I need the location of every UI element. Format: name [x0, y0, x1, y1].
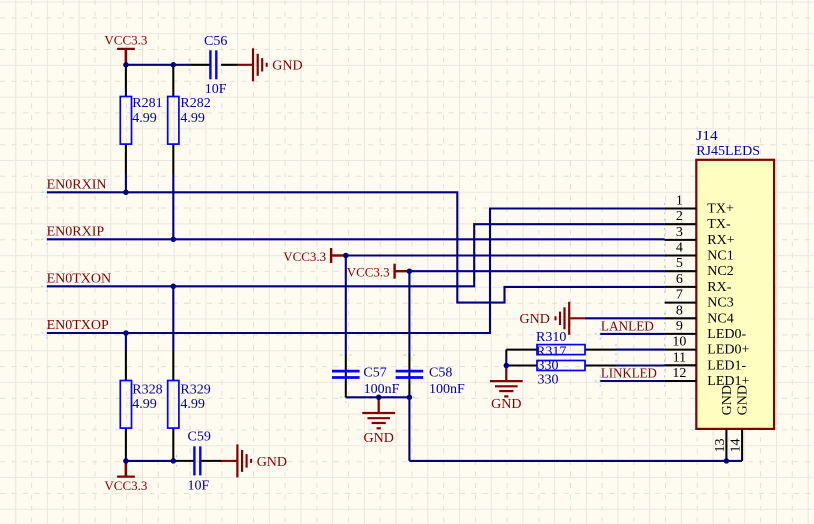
wire: top VCC3.3 rail — [126, 64, 189, 66]
wire: R310 output to pin 10 — [616, 349, 665, 351]
svg-text:R282: R282 — [180, 96, 210, 111]
svg-text:8: 8 — [676, 303, 683, 318]
svg-text:VCC3.3: VCC3.3 — [104, 32, 147, 47]
pin lead: C56 left — [189, 64, 210, 66]
wire: net EN0RXIP run to pin 3 — [47, 238, 665, 240]
svg-text:R281: R281 — [132, 96, 162, 111]
junction: bottom rail / R328 / VCC — [123, 458, 128, 464]
svg-text:GND: GND — [491, 397, 521, 412]
svg-text:R329: R329 — [180, 382, 210, 397]
pin 10 (LED0+) lead — [665, 349, 697, 351]
svg-text:330: 330 — [538, 358, 559, 373]
svg-text:100nF: 100nF — [364, 382, 400, 397]
wire: C57-C58 ground link — [346, 396, 410, 398]
svg-text:EN0RXIP: EN0RXIP — [47, 225, 105, 240]
resistor R282 — [168, 97, 179, 145]
resistor R281 — [120, 97, 131, 145]
pin lead: R282 top — [172, 65, 174, 97]
pin 8 (NC4) lead — [665, 317, 697, 319]
wire: R281 lower link — [125, 174, 127, 192]
wire: VCC3.3 port1 to pin 4 — [346, 254, 665, 256]
junction: VCC rail / R282 / C56 — [171, 62, 177, 68]
svg-text:12: 12 — [672, 366, 686, 381]
wire: bottom GND rail to pins 13-14 — [409, 460, 742, 462]
svg-text:4.99: 4.99 — [180, 111, 205, 126]
svg-text:330: 330 — [538, 373, 559, 388]
svg-text:VCC3.3: VCC3.3 — [283, 249, 326, 264]
pin lead: R310 left — [506, 349, 537, 351]
connection markers — [41, 59, 670, 467]
svg-text:1: 1 — [676, 194, 683, 209]
pin lead: C59 left — [177, 460, 195, 462]
junction: C58 / ground riser — [407, 395, 413, 401]
svg-text:VCC3.3: VCC3.3 — [347, 265, 390, 280]
ground GND (C57/C58) — [362, 397, 395, 446]
ground GND (top, C56) — [238, 48, 303, 81]
wire: R317 output to pin 11 — [616, 364, 665, 366]
svg-text:RX-: RX- — [707, 280, 731, 295]
svg-text:LED0-: LED0- — [707, 327, 746, 342]
svg-text:LINKLED: LINKLED — [601, 367, 657, 382]
svg-text:9: 9 — [676, 319, 683, 334]
resistor R328 — [120, 381, 131, 429]
pin lead: C59 right — [200, 460, 222, 462]
capacitor C57 — [332, 371, 360, 377]
svg-text:EN0RXIN: EN0RXIN — [47, 178, 107, 193]
junction: bottom rail / R329 / C59 — [171, 458, 177, 464]
pin lead: R329 top — [172, 351, 174, 381]
pin lead: R281 bottom — [125, 144, 127, 174]
svg-text:11: 11 — [673, 350, 686, 365]
pin 6 (RX-) lead — [665, 286, 697, 288]
junction: VCC rail / R281 — [123, 62, 128, 68]
pin 11 (LED1-) lead — [665, 364, 697, 366]
power VCC3.3 (port to pin5) — [347, 264, 409, 280]
wire: R310-R317 ground link (lower) — [505, 357, 507, 366]
svg-text:C58: C58 — [429, 365, 452, 380]
capacitor C59 — [194, 446, 200, 475]
svg-text:GND: GND — [364, 431, 394, 446]
wire: R328 riser from EN0TXOP — [125, 333, 127, 351]
resistor R317 — [537, 361, 585, 371]
pin 7 (NC3) lead — [665, 302, 697, 304]
junction: VCC port1 / C57 riser — [343, 253, 349, 259]
svg-text:4.99: 4.99 — [180, 397, 205, 412]
wire: R282 lower link — [172, 174, 174, 239]
junction: EN0RXIP / R282 — [171, 237, 177, 243]
svg-text:GND: GND — [520, 312, 550, 327]
pin lead: R281 top — [125, 65, 127, 97]
svg-text:4.99: 4.99 — [132, 397, 157, 412]
pin 13 (GND) lead — [725, 429, 727, 461]
pin 12 (LED1+) lead — [665, 380, 697, 382]
junction: R317 / ground link — [504, 363, 510, 369]
pin lead: R310 right — [585, 349, 616, 351]
svg-text:NC4: NC4 — [707, 311, 733, 326]
wire: R329 riser from EN0TXON — [172, 286, 174, 350]
resistor R329 — [168, 381, 179, 429]
junction: EN0RXIN / R281 — [123, 190, 128, 196]
pin lead: R328 top — [125, 351, 127, 381]
svg-text:C56: C56 — [204, 34, 227, 49]
svg-text:RX+: RX+ — [707, 233, 734, 248]
svg-text:13: 13 — [713, 439, 728, 453]
svg-text:GND: GND — [720, 385, 735, 415]
svg-text:RJ45LEDS: RJ45LEDS — [696, 144, 760, 159]
pin lead: R329 bottom — [172, 428, 174, 461]
power VCC3.3 (top) — [104, 32, 147, 63]
wire: net EN0RXIN run to pin 6 — [47, 192, 665, 302]
resistor R310 — [537, 345, 585, 355]
svg-text:VCC3.3: VCC3.3 — [104, 478, 147, 493]
svg-text:7: 7 — [676, 288, 683, 303]
svg-text:TX-: TX- — [707, 217, 731, 232]
ground GND (R310/R317) — [490, 366, 523, 413]
wire: VCC3.3 port2 to pin 5 — [409, 270, 664, 272]
wire: C58 riser — [408, 271, 410, 355]
ground GND (bottom, C59) — [222, 444, 287, 477]
wire: net EN0TXON run to pin 2 — [47, 224, 665, 286]
svg-text:10: 10 — [672, 335, 686, 350]
svg-text:C57: C57 — [363, 365, 386, 380]
wire: R310-R317 ground link (upper) — [505, 350, 507, 357]
svg-text:EN0TXOP: EN0TXOP — [47, 318, 109, 333]
junction: VCC port2 / C58 riser — [407, 268, 413, 274]
wire: net LINKLED to pin 12 — [600, 380, 664, 382]
wire: C57 riser — [345, 256, 347, 356]
svg-text:10F: 10F — [188, 478, 210, 493]
svg-text:TX+: TX+ — [707, 202, 734, 217]
svg-text:R310: R310 — [536, 330, 566, 345]
capacitor C58 — [396, 371, 424, 377]
wire: bottom VCC rail to C59 — [126, 460, 177, 462]
svg-text:14: 14 — [729, 439, 744, 453]
svg-text:J14: J14 — [696, 129, 718, 144]
pin 9 (LED0-) lead — [665, 333, 697, 335]
pin lead: C58 (through body) — [408, 355, 410, 397]
capacitor C56 — [210, 50, 216, 79]
svg-text:2: 2 — [676, 209, 683, 224]
svg-text:LANLED: LANLED — [601, 320, 654, 335]
pin 2 (TX-) lead — [665, 223, 697, 225]
svg-text:3: 3 — [676, 225, 683, 240]
pin lead: R328 bottom — [125, 428, 127, 461]
power VCC3.3 (bottom) — [104, 461, 147, 493]
wire: GND to pin 8 — [585, 317, 665, 319]
junction: GND rail / pin 13 — [724, 458, 730, 464]
svg-text:LED1-: LED1- — [707, 358, 746, 373]
wire: net LANLED to pin 9 — [600, 333, 664, 335]
pin lead: R317 left — [506, 364, 537, 366]
pin 4 (NC1) lead — [665, 254, 697, 256]
pin lead: C56 right — [221, 64, 238, 66]
pin lead: R317 right — [585, 364, 616, 366]
svg-text:4.99: 4.99 — [132, 111, 157, 126]
power VCC3.3 (port to pin4) — [283, 248, 345, 264]
svg-text:NC2: NC2 — [707, 264, 733, 279]
pin 3 (RX+) lead — [665, 239, 697, 241]
pin 14 (GND) lead — [741, 429, 743, 461]
svg-text:5: 5 — [676, 256, 683, 271]
svg-text:LED0+: LED0+ — [707, 343, 749, 358]
svg-text:4: 4 — [676, 241, 683, 256]
svg-text:NC1: NC1 — [707, 249, 733, 264]
svg-text:EN0TXON: EN0TXON — [47, 272, 112, 287]
wire: net EN0TXOP run to pin 1 — [47, 209, 665, 334]
svg-text:R328: R328 — [132, 382, 162, 397]
svg-text:GND: GND — [272, 59, 302, 74]
svg-text:GND: GND — [736, 385, 751, 415]
svg-text:C59: C59 — [188, 430, 211, 445]
junction: EN0TXON / R329 — [171, 284, 177, 290]
pin lead: C57 (through body) — [345, 355, 347, 397]
pin 1 (TX+) lead — [665, 207, 697, 209]
junction: EN0TXOP / R328 — [123, 330, 128, 336]
svg-text:GND: GND — [257, 455, 287, 470]
pin 5 (NC2) lead — [665, 270, 697, 272]
ground GND (pin 8) — [520, 302, 585, 335]
pin lead: R282 bottom — [172, 144, 174, 174]
wire: C58 ground riser to bottom rail — [408, 397, 410, 461]
connector J14 RJ45LEDS body — [696, 160, 774, 429]
svg-text:NC3: NC3 — [707, 296, 733, 311]
svg-text:10F: 10F — [205, 82, 227, 97]
svg-text:100nF: 100nF — [429, 382, 465, 397]
svg-text:6: 6 — [676, 272, 683, 287]
junction: C57-C58 link / GND — [376, 395, 382, 401]
